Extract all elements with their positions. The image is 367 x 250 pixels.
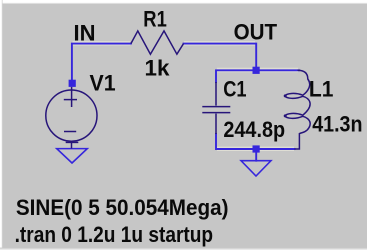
svg-text:R1: R1 xyxy=(143,7,167,32)
svg-text:C1: C1 xyxy=(223,77,246,102)
svg-text:V1: V1 xyxy=(90,70,116,95)
svg-text:.tran 0 1.2u 1u startup: .tran 0 1.2u 1u startup xyxy=(15,222,214,247)
svg-text:244.8p: 244.8p xyxy=(223,117,285,142)
svg-text:1k: 1k xyxy=(145,55,171,80)
svg-text:OUT: OUT xyxy=(234,20,278,45)
svg-text:41.3n: 41.3n xyxy=(312,112,362,137)
svg-text:L1: L1 xyxy=(309,77,334,102)
svg-text:SINE(0 5 50.054Mega): SINE(0 5 50.054Mega) xyxy=(16,195,229,220)
svg-text:IN: IN xyxy=(74,20,96,45)
